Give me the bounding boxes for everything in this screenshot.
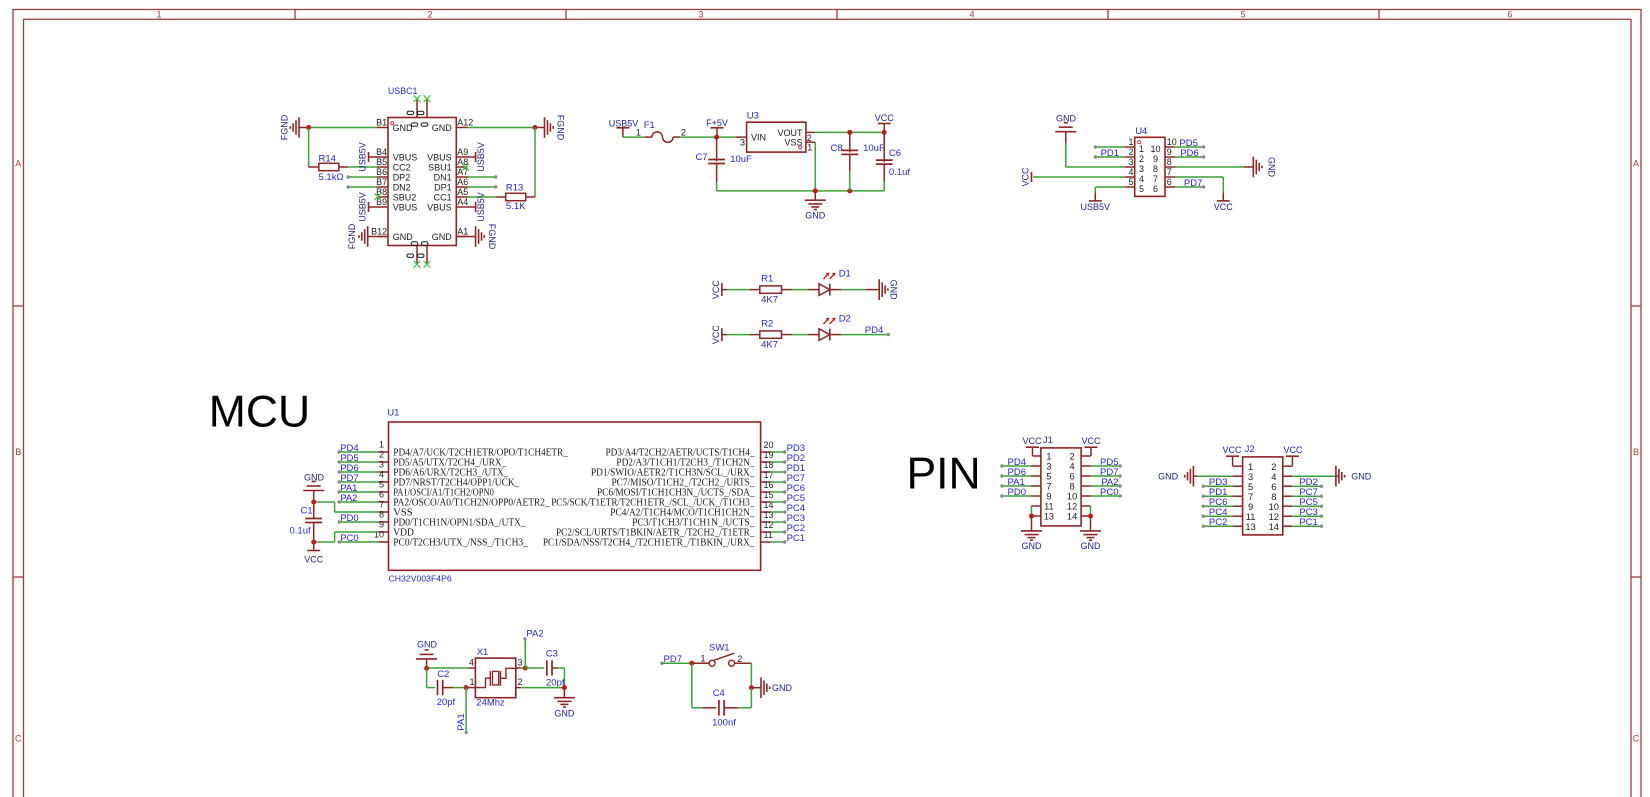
svg-text:PC1/SDA/NSS/T2CH4_/T2CH1ETR_/T: PC1/SDA/NSS/T2CH4_/T2CH1ETR_/T1BKIN_/URX… <box>543 537 755 548</box>
svg-text:4: 4 <box>469 657 474 667</box>
svg-text:6: 6 <box>379 490 384 500</box>
svg-text:8: 8 <box>379 510 384 520</box>
svg-text:R2: R2 <box>761 319 773 330</box>
svg-text:10: 10 <box>374 530 384 540</box>
svg-text:B1: B1 <box>376 118 387 128</box>
svg-text:GND: GND <box>805 211 826 221</box>
svg-text:9: 9 <box>1167 147 1172 157</box>
svg-text:R14: R14 <box>319 153 336 164</box>
svg-text:11: 11 <box>1246 512 1256 522</box>
svg-text:GND: GND <box>554 708 575 718</box>
svg-text:13: 13 <box>1044 512 1054 522</box>
svg-text:VBUS: VBUS <box>393 203 418 213</box>
svg-text:5: 5 <box>1248 482 1253 492</box>
svg-text:12: 12 <box>1067 502 1077 512</box>
svg-text:PD4: PD4 <box>865 325 883 336</box>
svg-text:PC0/T2CH3/UTX_/NSS_/T1CH3_: PC0/T2CH3/UTX_/NSS_/T1CH3_ <box>393 537 528 548</box>
svg-text:GND: GND <box>1267 157 1277 178</box>
svg-text:4K7: 4K7 <box>761 339 778 350</box>
svg-text:VCC: VCC <box>711 325 721 345</box>
svg-text:A6: A6 <box>457 177 468 187</box>
svg-text:PC0: PC0 <box>340 533 358 544</box>
svg-text:CH32V003F4P6: CH32V003F4P6 <box>389 573 452 583</box>
svg-text:GND: GND <box>432 123 453 133</box>
svg-text:DN1: DN1 <box>434 173 452 183</box>
svg-text:4: 4 <box>969 10 974 20</box>
svg-text:3: 3 <box>518 657 523 667</box>
svg-text:VCC: VCC <box>1082 436 1102 446</box>
svg-text:GND: GND <box>417 639 438 649</box>
svg-text:PIN: PIN <box>907 450 981 499</box>
svg-text:PD0: PD0 <box>1008 487 1026 498</box>
svg-text:U4: U4 <box>1135 126 1147 137</box>
svg-text:VOUT: VOUT <box>777 128 803 138</box>
svg-text:1: 1 <box>1248 462 1253 472</box>
svg-text:7: 7 <box>1046 482 1051 492</box>
svg-text:C3: C3 <box>546 649 558 660</box>
svg-text:B4: B4 <box>376 147 387 157</box>
svg-text:VCC: VCC <box>1022 436 1042 446</box>
svg-text:SBU1: SBU1 <box>428 163 452 173</box>
svg-text:GND: GND <box>1081 541 1102 551</box>
svg-text:2: 2 <box>1271 462 1276 472</box>
svg-text:13: 13 <box>1245 522 1255 532</box>
svg-text:6: 6 <box>1167 177 1172 187</box>
svg-text:GND: GND <box>889 280 899 301</box>
svg-text:VCC: VCC <box>1222 445 1242 455</box>
svg-text:C: C <box>15 734 22 744</box>
svg-text:FGND: FGND <box>280 114 290 140</box>
svg-text:10: 10 <box>1067 492 1077 502</box>
svg-text:6: 6 <box>1153 184 1158 194</box>
svg-text:0.1uf: 0.1uf <box>889 167 910 178</box>
svg-text:2: 2 <box>1139 154 1144 164</box>
svg-text:GND: GND <box>393 232 414 242</box>
svg-text:8: 8 <box>1153 164 1158 174</box>
svg-text:VCC: VCC <box>304 555 324 565</box>
svg-text:2: 2 <box>681 128 686 138</box>
svg-text:3: 3 <box>1128 157 1133 167</box>
svg-text:B12: B12 <box>371 227 387 237</box>
svg-text:11: 11 <box>1044 502 1054 512</box>
svg-text:3: 3 <box>740 138 745 148</box>
svg-text:VCC: VCC <box>875 113 895 123</box>
svg-text:9: 9 <box>1248 502 1253 512</box>
svg-text:B5: B5 <box>376 157 387 167</box>
svg-text:1: 1 <box>700 653 705 663</box>
svg-text:C4: C4 <box>713 688 725 699</box>
svg-text:D1: D1 <box>839 269 851 280</box>
svg-text:PA2: PA2 <box>340 493 357 504</box>
svg-text:20pf: 20pf <box>437 697 456 708</box>
svg-text:USB5V: USB5V <box>357 192 367 222</box>
svg-text:CC1: CC1 <box>434 193 452 203</box>
svg-text:14: 14 <box>1269 522 1279 532</box>
svg-text:A1: A1 <box>457 227 468 237</box>
svg-text:4: 4 <box>1139 174 1144 184</box>
svg-text:24Mhz: 24Mhz <box>476 698 505 709</box>
svg-text:6: 6 <box>1507 10 1512 20</box>
svg-text:FGND: FGND <box>556 115 566 141</box>
svg-text:100nf: 100nf <box>712 717 736 728</box>
svg-text:0.1uf: 0.1uf <box>290 525 311 536</box>
svg-text:GND: GND <box>1351 471 1372 481</box>
svg-text:1: 1 <box>156 10 161 20</box>
svg-text:CC2: CC2 <box>393 163 411 173</box>
svg-text:10: 10 <box>1269 502 1279 512</box>
svg-text:3: 3 <box>379 460 384 470</box>
svg-text:FGND: FGND <box>347 223 357 249</box>
svg-text:PC1: PC1 <box>787 533 805 544</box>
svg-text:PC0: PC0 <box>1100 487 1118 498</box>
svg-text:4: 4 <box>1070 462 1075 472</box>
svg-text:C2: C2 <box>437 669 449 680</box>
svg-text:B9: B9 <box>376 197 387 207</box>
svg-text:PD6: PD6 <box>1180 148 1198 159</box>
svg-text:D2: D2 <box>839 314 851 325</box>
svg-text:VCC: VCC <box>1214 202 1234 212</box>
svg-text:2: 2 <box>1070 452 1075 462</box>
svg-text:USBC1: USBC1 <box>388 86 417 96</box>
svg-text:5: 5 <box>1139 184 1144 194</box>
svg-text:DN2: DN2 <box>393 183 411 193</box>
svg-text:10uF: 10uF <box>863 143 885 154</box>
svg-text:2: 2 <box>737 654 742 664</box>
svg-text:VCC: VCC <box>1284 445 1304 455</box>
svg-text:GND: GND <box>432 232 453 242</box>
svg-text:9: 9 <box>1153 154 1158 164</box>
svg-text:10: 10 <box>1150 144 1160 154</box>
svg-text:PC2: PC2 <box>1209 517 1227 528</box>
svg-text:7: 7 <box>1153 174 1158 184</box>
svg-text:6: 6 <box>1271 482 1276 492</box>
svg-text:PD0: PD0 <box>340 513 358 524</box>
svg-text:12: 12 <box>1269 512 1279 522</box>
svg-text:10uF: 10uF <box>730 154 752 165</box>
svg-text:5: 5 <box>1128 177 1133 187</box>
svg-text:C7: C7 <box>695 152 707 163</box>
svg-text:PA2/OSCO/A0/T1CH2N/OPP0/AETR2_: PA2/OSCO/A0/T1CH2N/OPP0/AETR2_ <box>393 497 550 508</box>
svg-text:C: C <box>1633 734 1640 744</box>
svg-text:A5: A5 <box>457 187 468 197</box>
svg-text:GND: GND <box>772 683 793 693</box>
svg-text:8: 8 <box>1167 157 1172 167</box>
svg-text:USB5V: USB5V <box>476 142 486 172</box>
svg-text:A: A <box>15 159 21 169</box>
svg-text:4: 4 <box>379 470 384 480</box>
svg-text:8: 8 <box>1070 482 1075 492</box>
svg-text:5.1K: 5.1K <box>506 201 526 212</box>
svg-text:1: 1 <box>469 677 474 687</box>
svg-text:VBUS: VBUS <box>427 153 452 163</box>
svg-text:A4: A4 <box>457 197 468 207</box>
svg-text:B8: B8 <box>376 187 387 197</box>
svg-text:PC1: PC1 <box>1299 517 1317 528</box>
svg-text:USB5V: USB5V <box>476 192 486 222</box>
svg-text:20: 20 <box>764 440 774 450</box>
svg-text:B7: B7 <box>376 177 387 187</box>
svg-text:8: 8 <box>1271 492 1276 502</box>
svg-text:2: 2 <box>427 10 432 20</box>
svg-text:VCC: VCC <box>1021 167 1031 187</box>
svg-text:3: 3 <box>1248 472 1253 482</box>
svg-text:SW1: SW1 <box>709 643 730 654</box>
svg-text:3: 3 <box>1139 164 1144 174</box>
svg-text:14: 14 <box>1067 512 1077 522</box>
svg-text:A9: A9 <box>457 147 468 157</box>
svg-text:2: 2 <box>379 450 384 460</box>
svg-text:VBUS: VBUS <box>427 203 452 213</box>
svg-text:9: 9 <box>379 520 384 530</box>
svg-text:C6: C6 <box>889 148 901 159</box>
svg-text:C8: C8 <box>831 143 843 154</box>
svg-text:4K7: 4K7 <box>761 294 778 305</box>
svg-text:7: 7 <box>379 500 384 510</box>
svg-text:U3: U3 <box>747 111 759 122</box>
svg-text:2: 2 <box>1128 147 1133 157</box>
svg-text:B: B <box>1633 447 1639 457</box>
svg-text:7: 7 <box>1167 167 1172 177</box>
svg-text:20pf: 20pf <box>546 677 565 688</box>
svg-text:R13: R13 <box>506 182 523 193</box>
svg-text:J2: J2 <box>1245 444 1255 455</box>
svg-text:DP1: DP1 <box>434 183 452 193</box>
svg-text:1: 1 <box>636 128 641 138</box>
svg-text:1: 1 <box>1128 137 1133 147</box>
svg-text:5: 5 <box>1046 472 1051 482</box>
svg-text:2: 2 <box>518 677 523 687</box>
svg-text:R1: R1 <box>761 274 773 285</box>
svg-text:MCU: MCU <box>209 387 310 436</box>
svg-text:B: B <box>15 447 21 457</box>
svg-text:1: 1 <box>1139 144 1144 154</box>
svg-text:SBU2: SBU2 <box>393 193 417 203</box>
svg-text:9: 9 <box>1046 492 1051 502</box>
svg-text:F+5V: F+5V <box>706 118 728 128</box>
svg-text:4: 4 <box>1271 472 1276 482</box>
svg-text:A: A <box>1633 159 1639 169</box>
svg-text:3: 3 <box>1046 462 1051 472</box>
svg-text:DP2: DP2 <box>393 173 411 183</box>
svg-text:USB5V: USB5V <box>609 118 639 128</box>
svg-text:7: 7 <box>1248 492 1253 502</box>
svg-text:B6: B6 <box>376 167 387 177</box>
svg-text:USB5V: USB5V <box>1081 202 1111 212</box>
svg-text:1: 1 <box>1046 452 1051 462</box>
svg-text:PD7: PD7 <box>664 654 682 665</box>
svg-text:4: 4 <box>1128 167 1133 177</box>
svg-text:GND: GND <box>1158 471 1179 481</box>
svg-text:1: 1 <box>807 143 812 153</box>
svg-text:3: 3 <box>698 10 703 20</box>
svg-text:VBUS: VBUS <box>393 153 418 163</box>
svg-text:USB5V: USB5V <box>357 142 367 172</box>
svg-text:VCC: VCC <box>711 280 721 300</box>
svg-text:5.1kΩ: 5.1kΩ <box>319 172 344 183</box>
svg-text:GND: GND <box>1022 541 1043 551</box>
svg-text:5: 5 <box>1240 10 1245 20</box>
svg-text:6: 6 <box>1070 472 1075 482</box>
svg-text:5: 5 <box>379 480 384 490</box>
svg-text:PD1: PD1 <box>1101 148 1119 159</box>
svg-text:C1: C1 <box>301 506 313 517</box>
svg-text:A12: A12 <box>457 118 473 128</box>
svg-text:GND: GND <box>393 123 414 133</box>
svg-text:10: 10 <box>1167 137 1177 147</box>
svg-text:F1: F1 <box>644 120 655 131</box>
svg-text:U1: U1 <box>387 408 399 419</box>
svg-text:PD7: PD7 <box>1184 178 1202 189</box>
svg-text:PA2: PA2 <box>526 628 543 639</box>
svg-text:VIN: VIN <box>751 133 766 143</box>
svg-text:X1: X1 <box>477 647 489 658</box>
svg-text:J1: J1 <box>1043 435 1053 446</box>
svg-text:1: 1 <box>379 440 384 450</box>
svg-text:PA1: PA1 <box>456 713 467 730</box>
svg-text:FGND: FGND <box>487 224 497 250</box>
